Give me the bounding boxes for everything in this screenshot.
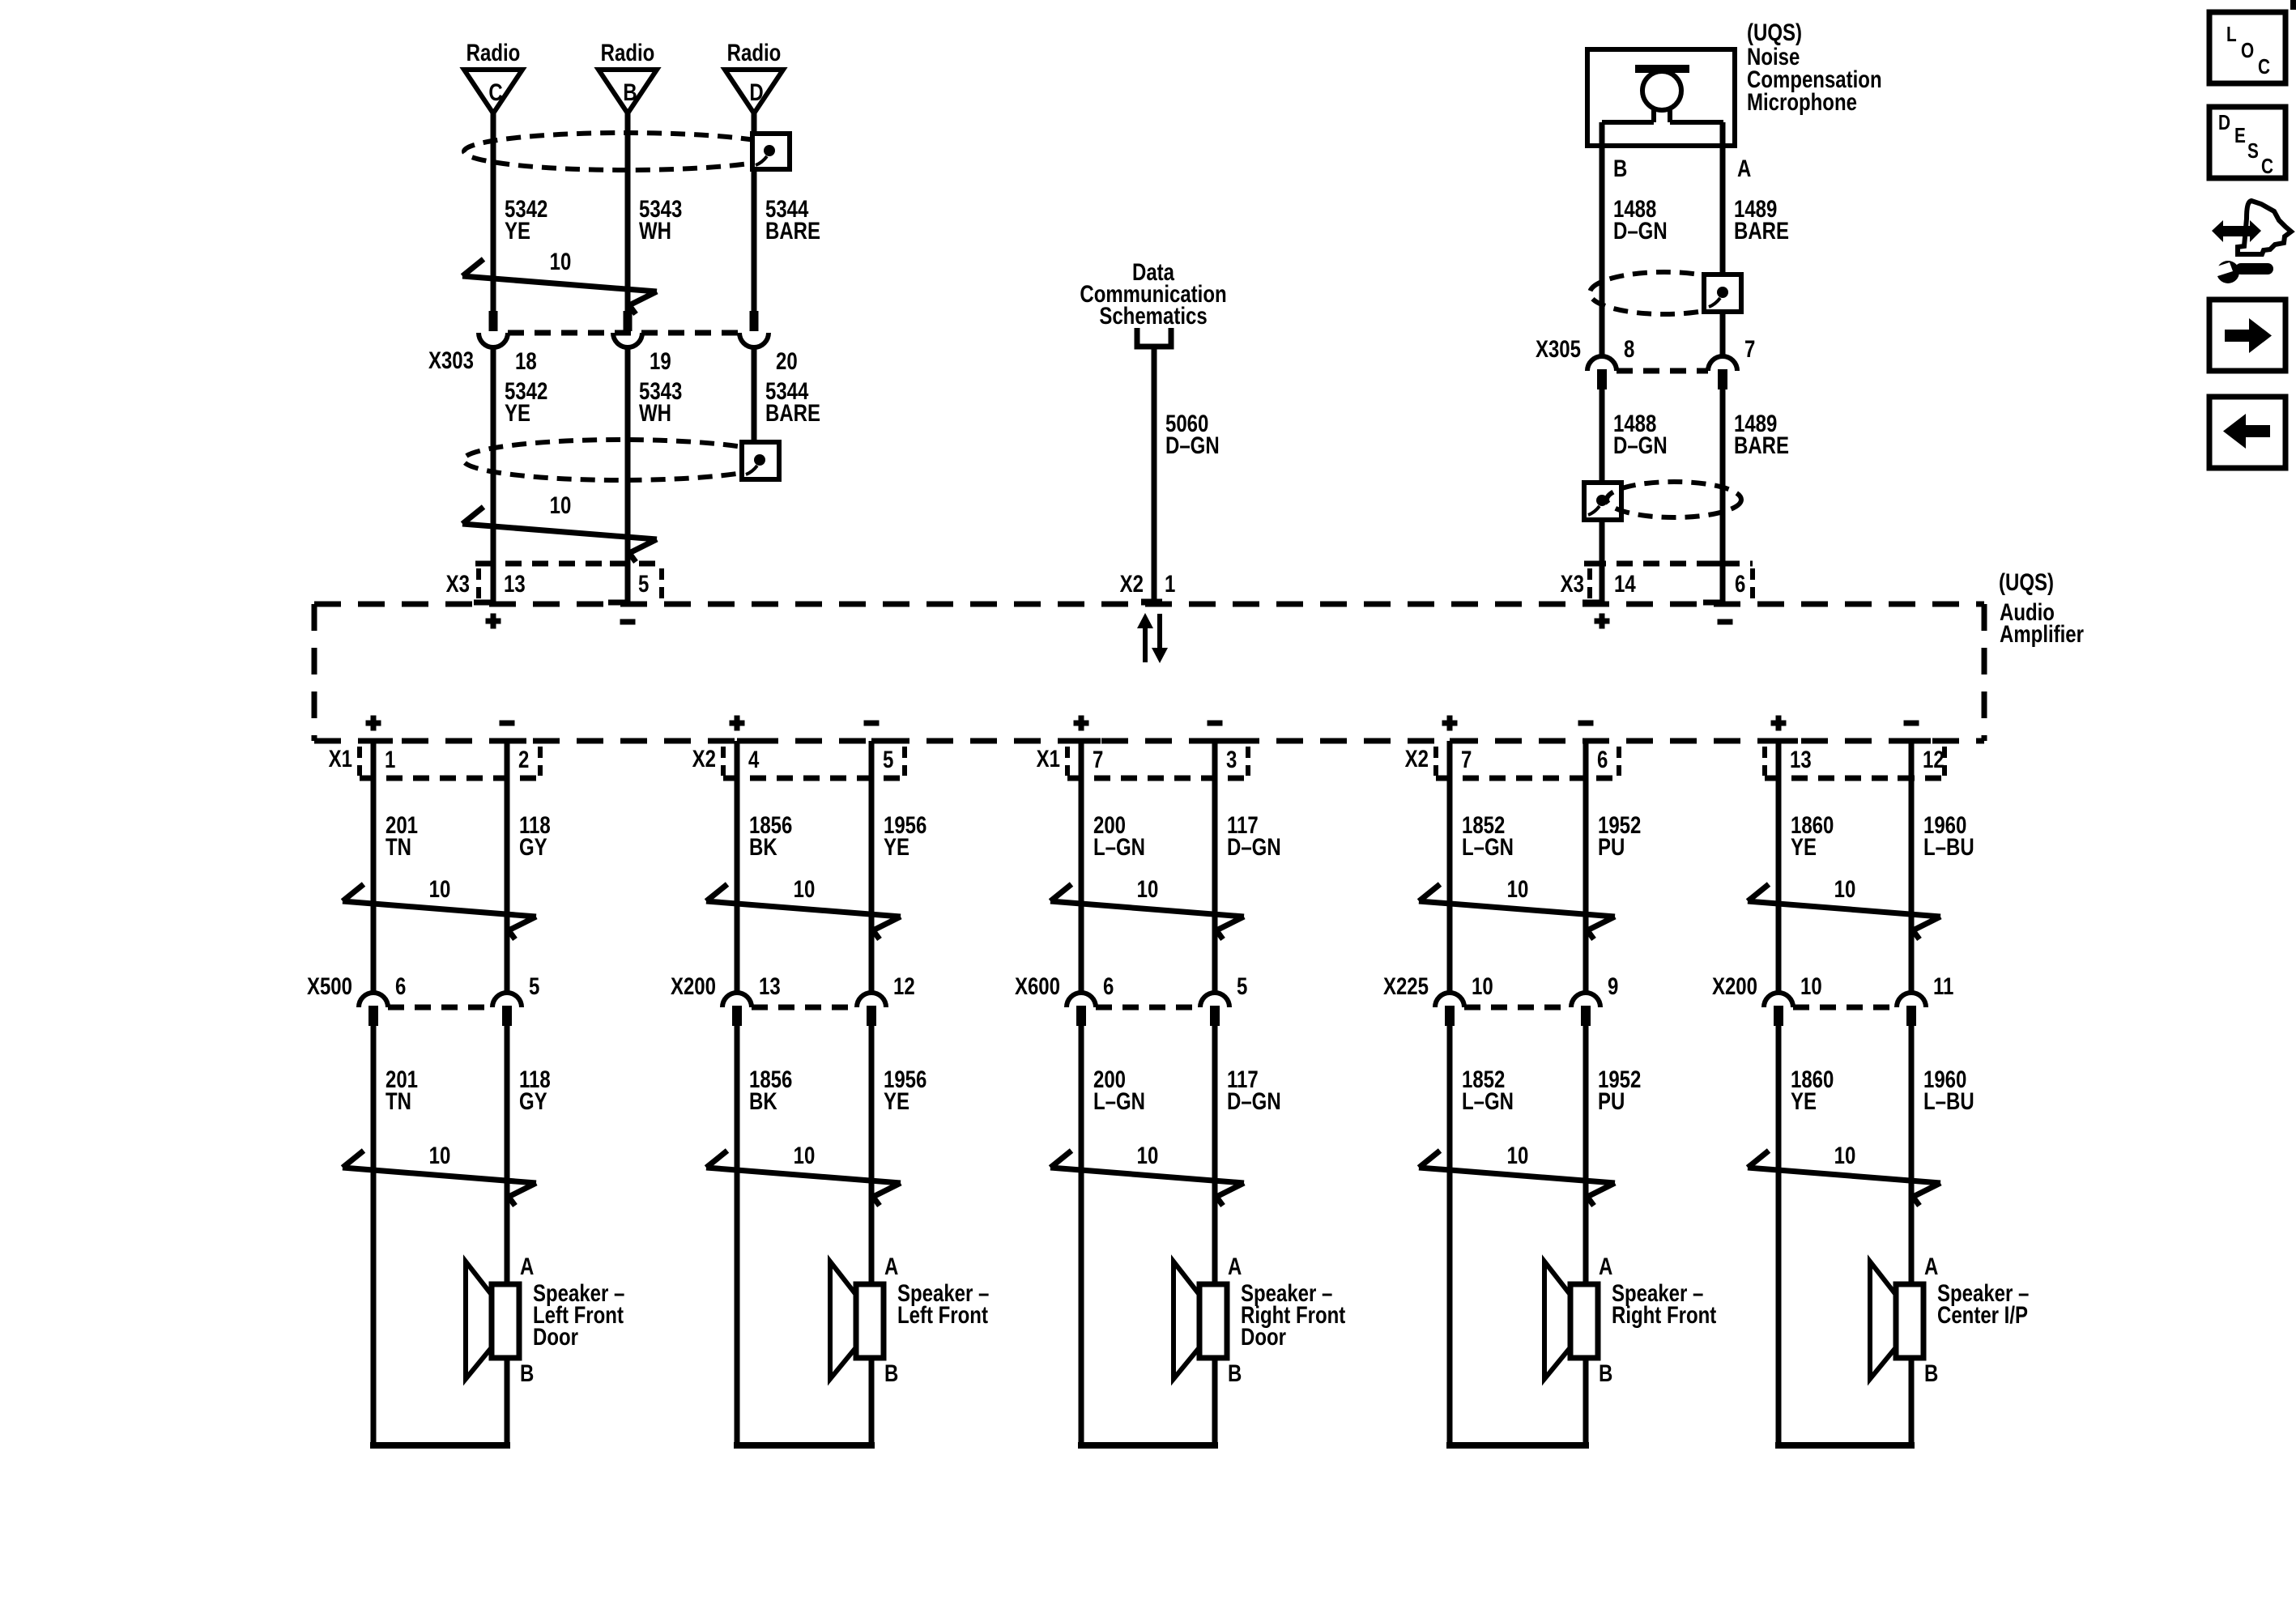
wire 5344 BARE segment antenna D to X303 xyxy=(752,111,757,312)
svg-text:YE: YE xyxy=(884,832,909,860)
wire 1952 segment amplifier to X225 xyxy=(1583,741,1589,993)
polarity + at X3 pin 13 xyxy=(486,614,501,629)
svg-text:D: D xyxy=(749,78,763,105)
wire 1952 segment X225 to speaker xyxy=(1583,1025,1589,1284)
svg-text:X1: X1 xyxy=(1037,744,1060,772)
wire label 1860 YE (upper) xyxy=(1791,811,1834,860)
wire 1856 segment amplifier to X200 xyxy=(735,741,740,993)
wire label 5344 BARE (upper) xyxy=(765,194,820,244)
svg-text:5: 5 xyxy=(883,745,893,772)
noise compensation microphone box xyxy=(1587,49,1735,146)
in-line connector X303 dashed line xyxy=(508,330,739,336)
wire 5344 BARE segment X303 to shield ground xyxy=(752,347,757,447)
svg-text:L–GN: L–GN xyxy=(1462,1087,1514,1114)
connector X225 terminal pin 10 xyxy=(1435,993,1464,1026)
off-page reference Data Communication Schematics xyxy=(1080,257,1226,347)
svg-text:Radio: Radio xyxy=(601,38,655,66)
svg-text:E: E xyxy=(2234,124,2246,147)
svg-text:5: 5 xyxy=(529,972,539,999)
connector X200 terminal pin 13 xyxy=(722,993,752,1026)
svg-text:10: 10 xyxy=(550,247,572,274)
connector X600 terminal pin 5 xyxy=(1200,993,1229,1026)
svg-text:B: B xyxy=(1924,1359,1938,1386)
polarity + at amplifier output Speaker - Right Front xyxy=(1442,716,1458,731)
svg-text:4: 4 xyxy=(748,745,759,772)
speaker symbol Speaker - Center I/P xyxy=(1870,1262,1923,1379)
svg-text:D–GN: D–GN xyxy=(1227,1087,1281,1114)
polarity - at amplifier output Speaker - Left Front Door xyxy=(500,721,515,726)
wire label 1956 YE (lower) xyxy=(884,1065,926,1114)
svg-text:Amplifier: Amplifier xyxy=(2000,619,2084,647)
svg-text:D–GN: D–GN xyxy=(1613,216,1668,244)
svg-text:GY: GY xyxy=(519,1087,547,1114)
svg-text:14: 14 xyxy=(1614,569,1636,597)
icon button arrow right xyxy=(2209,300,2285,371)
wire label 1852 L&#8211;GN (upper) xyxy=(1462,811,1514,860)
svg-text:13: 13 xyxy=(504,569,526,597)
polarity + at X3 pin 14 xyxy=(1595,614,1610,629)
wire 1852 segment X225 to speaker xyxy=(1447,1025,1453,1449)
amplifier pin 6 terminal brackets xyxy=(1572,741,1605,778)
wire 1852 segment amplifier to X225 xyxy=(1447,741,1453,993)
svg-text:3: 3 xyxy=(1226,745,1237,772)
svg-text:BARE: BARE xyxy=(1734,431,1789,458)
svg-text:PU: PU xyxy=(1598,1087,1625,1114)
svg-text:A: A xyxy=(520,1252,534,1279)
label Speaker - Center I/P xyxy=(1937,1279,2029,1328)
wire label 1489 BARE (lower) xyxy=(1734,409,1789,458)
svg-text:YE: YE xyxy=(505,398,530,426)
polarity - at X3 pin 5 xyxy=(620,619,636,625)
amplifier pin 7 terminal brackets xyxy=(1067,741,1101,778)
svg-text:10: 10 xyxy=(550,491,572,518)
svg-text:10: 10 xyxy=(794,874,816,902)
svg-text:1: 1 xyxy=(1165,569,1175,597)
svg-text:13: 13 xyxy=(759,972,781,999)
in-line connector X225 dashed line xyxy=(1464,1005,1571,1011)
polarity + at amplifier output Speaker - Left Front Door xyxy=(366,716,381,731)
wire 5342 YE segment X303 to X3 xyxy=(491,347,496,604)
svg-text:B: B xyxy=(520,1359,534,1386)
wire label 1488 D-GN (upper) xyxy=(1613,194,1668,244)
twisted pair symbol 10 (lower) xyxy=(1748,1141,1940,1206)
svg-text:X500: X500 xyxy=(307,972,352,999)
svg-text:C: C xyxy=(2261,155,2273,178)
connector X303 terminal pin 18 xyxy=(479,311,508,347)
svg-text:B: B xyxy=(1613,154,1627,181)
connector X200 terminal pin 12 xyxy=(857,993,886,1026)
connector X3 pin 14 terminal brackets xyxy=(1582,564,1602,602)
connector X200 terminal pin 11 xyxy=(1897,993,1926,1026)
svg-text:L–GN: L–GN xyxy=(1093,1087,1145,1114)
wire label 5343 WH (upper) xyxy=(639,194,682,244)
svg-text:10: 10 xyxy=(1137,874,1159,902)
polarity + at amplifier output Speaker - Center I/P xyxy=(1771,716,1787,731)
wire label 1852 L&#8211;GN (lower) xyxy=(1462,1065,1514,1114)
svg-text:YE: YE xyxy=(1791,832,1817,860)
connector X3 pin 5 terminal brackets xyxy=(608,564,628,602)
wire 1960 segment amplifier to X200 xyxy=(1909,741,1915,993)
svg-text:10: 10 xyxy=(429,1141,451,1168)
twisted pair symbol 10 (upper) xyxy=(706,874,901,939)
connector X500 terminal pin 6 xyxy=(359,993,388,1026)
twisted pair symbol 10 (lower) xyxy=(343,1141,536,1206)
label Speaker - Left Front xyxy=(897,1279,989,1328)
twisted pair symbol 10 (antenna, lower) xyxy=(462,491,657,562)
svg-text:L–BU: L–BU xyxy=(1923,832,1974,860)
wire label 5342 YE (lower) xyxy=(505,377,547,426)
svg-text:C: C xyxy=(2258,55,2270,79)
connector X3 (amplifier, left) dashed outline xyxy=(479,564,662,601)
svg-text:TN: TN xyxy=(386,832,411,860)
svg-text:BK: BK xyxy=(749,1087,777,1114)
in-line connector X305 dashed line xyxy=(1617,368,1708,374)
shield ground square on wire 5344 (upper) xyxy=(752,134,790,169)
svg-text:X2: X2 xyxy=(1405,744,1429,772)
connector X3 (amplifier, right) dashed outline xyxy=(1590,564,1753,601)
svg-text:A: A xyxy=(1228,1252,1242,1279)
wire 1860 segment X200 to speaker xyxy=(1776,1025,1782,1449)
svg-text:10: 10 xyxy=(1507,1141,1529,1168)
svg-text:11: 11 xyxy=(1933,972,1953,999)
svg-text:20: 20 xyxy=(776,347,798,374)
in-line connector X600 dashed line xyxy=(1096,1005,1200,1011)
svg-text:1: 1 xyxy=(385,745,395,772)
svg-text:BARE: BARE xyxy=(765,216,820,244)
svg-text:Center I/P: Center I/P xyxy=(1937,1300,2028,1328)
speaker symbol Speaker - Right Front Door xyxy=(1174,1262,1227,1379)
svg-text:7: 7 xyxy=(1461,745,1472,772)
wire label 1488 D-GN (lower) xyxy=(1613,409,1668,458)
svg-text:10: 10 xyxy=(1472,972,1493,999)
svg-text:BARE: BARE xyxy=(765,398,820,426)
wire 117 segment X600 to speaker xyxy=(1212,1025,1218,1284)
wire label 1856 BK (lower) xyxy=(749,1065,792,1114)
svg-text:Schematics: Schematics xyxy=(1099,301,1207,329)
svg-text:5: 5 xyxy=(1237,972,1247,999)
wire label 1952 PU (upper) xyxy=(1598,811,1641,860)
svg-text:Radio: Radio xyxy=(727,38,782,66)
in-line connector X500 dashed line xyxy=(388,1005,492,1011)
connector X3 pin 6 terminal brackets xyxy=(1703,564,1723,602)
svg-text:PU: PU xyxy=(1598,832,1625,860)
svg-text:X305: X305 xyxy=(1536,334,1581,362)
svg-text:6: 6 xyxy=(1597,745,1608,772)
svg-text:10: 10 xyxy=(1834,1141,1856,1168)
wire label 201 TN (upper) xyxy=(386,811,418,860)
svg-text:WH: WH xyxy=(639,398,671,426)
shield ellipse around antenna coax (upper) xyxy=(464,133,788,170)
amplifier pin 4 terminal brackets xyxy=(723,741,756,778)
svg-text:10: 10 xyxy=(1834,874,1856,902)
icon button DESC xyxy=(2209,107,2285,178)
twisted pair symbol 10 (upper) xyxy=(1748,874,1940,939)
amplifier pin 2 terminal brackets xyxy=(493,741,526,778)
svg-text:WH: WH xyxy=(639,216,671,244)
twisted pair symbol 10 (lower) xyxy=(1419,1141,1615,1206)
svg-text:Microphone: Microphone xyxy=(1747,87,1857,115)
wire speaker Speaker - Left Front Door B return xyxy=(370,1358,510,1449)
page corner mark xyxy=(2290,0,2296,10)
label (UQS) Noise Compensation Microphone xyxy=(1747,18,1882,115)
svg-text:8: 8 xyxy=(1624,334,1634,362)
svg-text:Right Front: Right Front xyxy=(1612,1300,1716,1328)
svg-text:Left Front: Left Front xyxy=(897,1300,988,1328)
shield ground square on wire 1488 (lower) xyxy=(1584,483,1621,520)
svg-text:10: 10 xyxy=(1137,1141,1159,1168)
shield ellipse around antenna coax (lower) xyxy=(463,440,779,480)
wire label 1860 YE (lower) xyxy=(1791,1065,1834,1114)
wire 118 segment amplifier to X500 xyxy=(505,741,510,993)
amplifier pin 1 terminal brackets xyxy=(360,741,393,778)
wire 118 segment X500 to speaker xyxy=(505,1025,510,1284)
svg-text:6: 6 xyxy=(395,972,406,999)
amplifier output connector X1 7/3 dashed outline xyxy=(1067,747,1248,778)
amplifier output connector X2 7/6 dashed outline xyxy=(1436,747,1619,778)
svg-text:A: A xyxy=(884,1252,898,1279)
polarity + at amplifier output Speaker - Left Front xyxy=(730,716,745,731)
connector X600 terminal pin 6 xyxy=(1067,993,1096,1026)
wire speaker Speaker - Right Front Door B return xyxy=(1078,1358,1218,1449)
icon button arrow left xyxy=(2209,397,2285,468)
polarity - at amplifier output Speaker - Right Front Door xyxy=(1208,721,1223,726)
svg-text:13: 13 xyxy=(1790,745,1812,772)
svg-text:D–GN: D–GN xyxy=(1613,431,1668,458)
shield ground square on wire 5344 (lower, termination) xyxy=(742,442,779,479)
polarity - at amplifier output Speaker - Center I/P xyxy=(1904,721,1919,726)
shield ground square on wire 1489 (upper) xyxy=(1704,274,1741,312)
svg-text:B: B xyxy=(884,1359,898,1386)
wire 1488 D-GN segment mic to X305 xyxy=(1600,122,1605,356)
wire speaker Speaker - Center I/P B return xyxy=(1775,1358,1915,1449)
wire label 118 GY (upper) xyxy=(519,811,551,860)
svg-text:X225: X225 xyxy=(1383,972,1429,999)
amplifier pin 12 terminal brackets xyxy=(1898,741,1931,778)
svg-text:X303: X303 xyxy=(428,346,474,373)
twisted pair symbol 10 (antenna, upper) xyxy=(462,247,657,314)
wire 117 segment amplifier to X600 xyxy=(1212,741,1218,993)
speaker symbol Speaker - Left Front Door xyxy=(466,1262,519,1379)
svg-text:X3: X3 xyxy=(1561,569,1584,597)
svg-text:GY: GY xyxy=(519,832,547,860)
wire 1956 segment X200 to speaker xyxy=(869,1025,875,1284)
svg-text:10: 10 xyxy=(794,1141,816,1168)
svg-text:A: A xyxy=(1737,154,1751,181)
svg-text:YE: YE xyxy=(1791,1087,1817,1114)
polarity - at amplifier output Speaker - Left Front xyxy=(864,721,880,726)
polarity - at X3 pin 6 xyxy=(1718,619,1733,625)
wire label 5342 YE (upper) xyxy=(505,194,547,244)
shield ellipse around microphone cable (upper) xyxy=(1590,272,1739,314)
svg-text:S: S xyxy=(2247,139,2259,163)
svg-text:10: 10 xyxy=(1507,874,1529,902)
in-line connector X200 dashed line xyxy=(752,1005,857,1011)
svg-text:B: B xyxy=(623,78,637,105)
twisted pair symbol 10 (lower) xyxy=(706,1141,901,1206)
amplifier pin 7 terminal brackets xyxy=(1436,741,1469,778)
polarity - at amplifier output Speaker - Right Front xyxy=(1578,721,1594,726)
antenna symbol Radio B xyxy=(598,38,657,113)
speaker symbol Speaker - Left Front xyxy=(830,1262,884,1379)
wire 201 segment X500 to speaker xyxy=(371,1025,377,1449)
amplifier output connector pins 13/12 dashed outline xyxy=(1765,747,1945,778)
svg-text:10: 10 xyxy=(429,874,451,902)
svg-text:TN: TN xyxy=(386,1087,411,1114)
twisted pair symbol 10 (upper) xyxy=(1419,874,1615,939)
svg-text:A: A xyxy=(1924,1252,1938,1279)
antenna symbol Radio C xyxy=(464,38,522,113)
svg-text:B: B xyxy=(1228,1359,1242,1386)
svg-text:D–GN: D–GN xyxy=(1165,431,1220,458)
wire label 117 D&#8211;GN (upper) xyxy=(1227,811,1281,860)
wire 1860 segment amplifier to X200 xyxy=(1776,741,1782,993)
connector X225 terminal pin 9 xyxy=(1571,993,1600,1026)
svg-text:Door: Door xyxy=(533,1322,578,1350)
svg-text:6: 6 xyxy=(1103,972,1114,999)
svg-text:5: 5 xyxy=(638,569,649,597)
wire 5343 WH segment antenna B to X303 xyxy=(625,111,631,312)
shield ellipse around microphone cable (lower) xyxy=(1607,482,1741,517)
svg-text:Radio: Radio xyxy=(466,38,521,66)
svg-text:O: O xyxy=(2241,39,2254,62)
wire 1488 D-GN segment X305 to X3 xyxy=(1600,389,1605,604)
svg-text:X3: X3 xyxy=(446,569,470,597)
wire 5343 WH segment X303 to X3 xyxy=(625,347,631,604)
svg-text:BK: BK xyxy=(749,832,777,860)
amplifier output connector X1 1/2 dashed outline xyxy=(360,747,540,778)
label Speaker - Right Front xyxy=(1612,1279,1716,1328)
svg-text:BARE: BARE xyxy=(1734,216,1789,244)
connector X2 pin 1 at amplifier xyxy=(1141,599,1162,606)
wire label 5060 D-GN xyxy=(1165,409,1220,458)
svg-text:19: 19 xyxy=(650,347,671,374)
svg-text:X1: X1 xyxy=(329,744,352,772)
wire speaker Speaker - Left Front B return xyxy=(734,1358,875,1449)
wire label 1960 L&#8211;BU (lower) xyxy=(1923,1065,1974,1114)
wire 1856 segment X200 to speaker xyxy=(735,1025,740,1449)
wire label 1956 YE (upper) xyxy=(884,811,926,860)
svg-text:6: 6 xyxy=(1735,569,1745,597)
connector X500 terminal pin 5 xyxy=(492,993,522,1026)
svg-text:Door: Door xyxy=(1241,1322,1286,1350)
wire 200 segment amplifier to X600 xyxy=(1079,741,1084,993)
wire 1489 BARE segment mic to X305 xyxy=(1720,122,1726,356)
in-line connector X200 dashed line xyxy=(1793,1005,1897,1011)
wire 1489 BARE segment X305 to X3 xyxy=(1720,389,1726,604)
svg-text:D–GN: D–GN xyxy=(1227,832,1281,860)
amplifier output connector X2 4/5 dashed outline xyxy=(723,747,905,778)
svg-text:10: 10 xyxy=(1800,972,1822,999)
wire 1956 segment amplifier to X200 xyxy=(869,741,875,993)
svg-text:L–GN: L–GN xyxy=(1093,832,1145,860)
twisted pair symbol 10 (upper) xyxy=(343,874,536,939)
bidirectional data arrows xyxy=(1137,613,1168,663)
speaker symbol Speaker - Right Front xyxy=(1544,1262,1598,1379)
icon wrench with double arrow xyxy=(2212,201,2291,283)
wire label 118 GY (lower) xyxy=(519,1065,551,1114)
wire label 1856 BK (upper) xyxy=(749,811,792,860)
wire 5342 YE segment antenna C to X303 xyxy=(491,111,496,312)
twisted pair symbol 10 (upper) xyxy=(1050,874,1244,939)
wire 5060 D-GN xyxy=(1152,347,1157,602)
wire label 200 L&#8211;GN (lower) xyxy=(1093,1065,1145,1114)
svg-text:C: C xyxy=(488,78,502,105)
svg-text:B: B xyxy=(1599,1359,1612,1386)
connector X303 terminal pin 19 xyxy=(613,311,642,347)
svg-text:X200: X200 xyxy=(1712,972,1757,999)
wire label 1952 PU (lower) xyxy=(1598,1065,1641,1114)
svg-text:YE: YE xyxy=(884,1087,909,1114)
wire 200 segment X600 to speaker xyxy=(1079,1025,1084,1449)
wire label 201 TN (lower) xyxy=(386,1065,418,1114)
svg-text:12: 12 xyxy=(893,972,915,999)
wire speaker Speaker - Right Front B return xyxy=(1446,1358,1589,1449)
connector X305 terminal pin 8 xyxy=(1587,356,1617,389)
wire label 5343 WH (lower) xyxy=(639,377,682,426)
svg-text:X200: X200 xyxy=(671,972,716,999)
connector X200 terminal pin 10 xyxy=(1764,993,1793,1026)
wire label 117 D&#8211;GN (lower) xyxy=(1227,1065,1281,1114)
svg-text:D: D xyxy=(2218,111,2230,134)
amplifier pin 13 terminal brackets xyxy=(1765,741,1798,778)
wire label 200 L&#8211;GN (upper) xyxy=(1093,811,1145,860)
svg-text:7: 7 xyxy=(1744,334,1755,362)
svg-text:9: 9 xyxy=(1608,972,1618,999)
svg-text:12: 12 xyxy=(1923,745,1945,772)
svg-text:X2: X2 xyxy=(1120,569,1144,597)
polarity + at amplifier output Speaker - Right Front Door xyxy=(1074,716,1089,731)
audio amplifier dashed box xyxy=(314,604,1984,741)
svg-text:7: 7 xyxy=(1093,745,1103,772)
svg-text:18: 18 xyxy=(515,347,537,374)
label Speaker - Right Front Door xyxy=(1241,1279,1345,1350)
svg-text:2: 2 xyxy=(518,745,529,772)
svg-text:YE: YE xyxy=(505,216,530,244)
svg-text:L: L xyxy=(2226,23,2237,46)
connector X303 terminal pin 20 xyxy=(739,311,769,347)
svg-text:(UQS): (UQS) xyxy=(1999,568,2054,595)
label (UQS) Audio Amplifier xyxy=(1999,568,2084,647)
wire 1960 segment X200 to speaker xyxy=(1909,1025,1915,1284)
svg-text:X2: X2 xyxy=(692,744,716,772)
icon button LOC xyxy=(2209,12,2285,83)
amplifier pin 5 terminal brackets xyxy=(858,741,891,778)
wire label 1489 BARE (upper) xyxy=(1734,194,1789,244)
connector X3 pin 13 terminal brackets xyxy=(474,564,493,602)
svg-text:L–GN: L–GN xyxy=(1462,832,1514,860)
label Speaker - Left Front Door xyxy=(533,1279,624,1350)
wire label 1960 L&#8211;BU (upper) xyxy=(1923,811,1974,860)
connector X305 terminal pin 7 xyxy=(1708,356,1737,389)
twisted pair symbol 10 (lower) xyxy=(1050,1141,1244,1206)
wire label 5344 BARE (lower) xyxy=(765,377,820,426)
antenna symbol Radio D xyxy=(725,38,783,113)
wire 201 segment amplifier to X500 xyxy=(371,741,377,993)
svg-text:A: A xyxy=(1599,1252,1612,1279)
svg-text:L–BU: L–BU xyxy=(1923,1087,1974,1114)
svg-text:X600: X600 xyxy=(1015,972,1060,999)
amplifier pin 3 terminal brackets xyxy=(1201,741,1234,778)
